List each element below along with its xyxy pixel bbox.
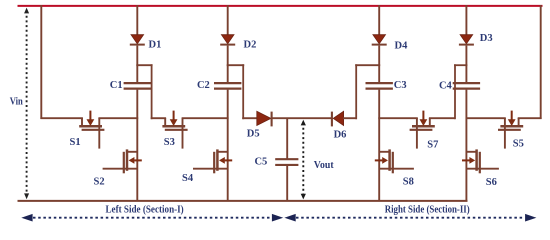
- capacitor C2: [214, 83, 241, 89]
- diode D1: [130, 5, 145, 83]
- svg-text:S4: S4: [182, 173, 194, 184]
- svg-text:C1: C1: [110, 80, 123, 91]
- transistor S4: [193, 149, 232, 173]
- wire segment: D6 to C3 bypass: [343, 117, 357, 119]
- svg-text:D2: D2: [244, 39, 257, 50]
- svg-text:C5: C5: [254, 157, 267, 168]
- transistor S3: [162, 111, 187, 149]
- svg-text:S6: S6: [486, 177, 497, 188]
- net Vout dotted dimension line: [301, 120, 306, 200]
- wire top rail Vin+: [18, 5, 543, 7]
- svg-text:C3: C3: [394, 80, 407, 91]
- svg-text:C4: C4: [439, 80, 453, 91]
- wire C4 bypass: [454, 64, 467, 119]
- diode D4: [372, 5, 387, 83]
- svg-text:Left Side (Section-I): Left Side (Section-I): [106, 204, 184, 215]
- diode D3: [459, 5, 474, 83]
- wire segment: S7 to C4 bypass: [429, 117, 456, 119]
- wire node C down through S8 to bottom rail: [378, 90, 380, 201]
- svg-text:D4: D4: [395, 40, 409, 51]
- wire segment: S5 to right rail: [518, 117, 542, 119]
- svg-text:Vout: Vout: [314, 160, 334, 171]
- transistor S7: [410, 111, 435, 149]
- svg-text:S3: S3: [164, 137, 175, 148]
- wire C2 bypass: [227, 64, 245, 119]
- transistor S5: [498, 111, 523, 149]
- net Vin dotted dimension line: [24, 8, 29, 200]
- diode D2: [220, 5, 235, 83]
- svg-text:S2: S2: [94, 177, 105, 188]
- wire segment: C2 bypass to D5: [242, 117, 257, 119]
- wire bottom rail Vin-: [18, 200, 468, 202]
- wire C3 bypass: [355, 64, 380, 119]
- wire segment: C1 bypass to S3: [151, 117, 166, 119]
- svg-text:Right Side (Section-II): Right Side (Section-II): [385, 205, 470, 216]
- svg-text:D5: D5: [247, 129, 260, 140]
- capacitor C4: [453, 83, 480, 89]
- svg-text:D3: D3: [480, 33, 493, 44]
- wire segment: node D to S5: [466, 117, 506, 119]
- wire node D down through S6 to bottom rail: [465, 90, 467, 201]
- wire node A down through S2 to bottom rail: [136, 90, 138, 201]
- transistor S8: [375, 149, 414, 173]
- svg-text:S1: S1: [70, 137, 81, 148]
- wire right rail: [540, 5, 542, 119]
- diode D6: [332, 111, 344, 126]
- wire C1 bypass: [136, 64, 152, 119]
- svg-text:D6: D6: [334, 129, 347, 140]
- svg-text:S8: S8: [403, 176, 414, 187]
- wire node B down through S4 to bottom rail: [227, 90, 229, 201]
- wire segment: D5 to D6 (node Vout+): [272, 117, 333, 119]
- wire segment: S3 to node B: [182, 117, 229, 119]
- capacitor C1: [124, 83, 151, 89]
- transistor S2: [103, 149, 142, 173]
- svg-text:S5: S5: [513, 138, 524, 149]
- transistor S1: [79, 111, 104, 149]
- wire segment: S1 to node A: [98, 117, 138, 119]
- capacitor C3: [366, 83, 393, 89]
- dimension arrow Left Side: [21, 214, 283, 222]
- dimension arrow Right Side: [284, 214, 536, 222]
- svg-text:D1: D1: [149, 39, 162, 50]
- svg-text:Vin: Vin: [10, 96, 23, 107]
- capacitor C5: [275, 119, 298, 201]
- svg-text:S7: S7: [427, 140, 438, 151]
- wire segment: node C to S7: [378, 117, 418, 119]
- svg-text:C2: C2: [197, 80, 210, 91]
- diode D5: [257, 111, 272, 126]
- wire left rail: [40, 5, 42, 119]
- transistor S6: [462, 149, 499, 173]
- wire segment: left rail to S1: [40, 117, 83, 119]
